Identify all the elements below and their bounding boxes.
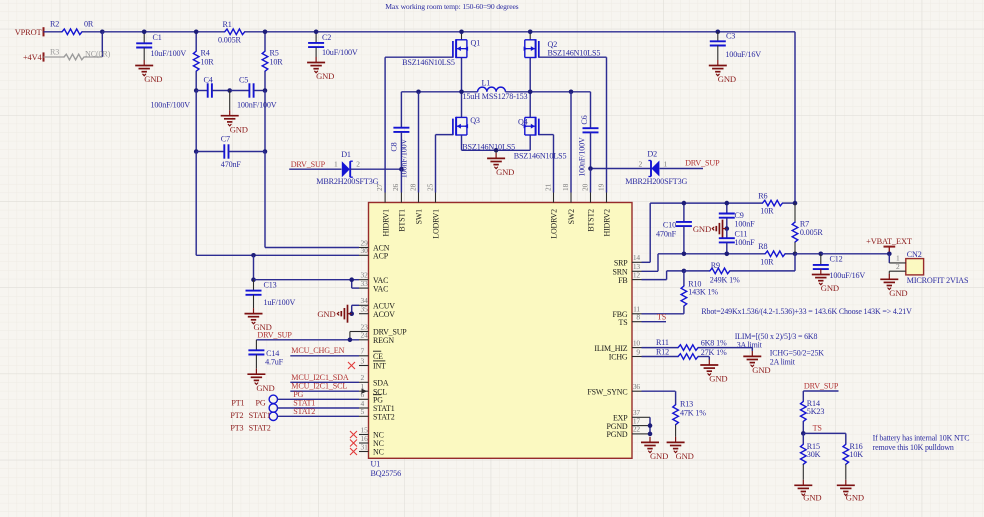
ground C14: [255, 369, 257, 375]
ground C13: [253, 308, 255, 314]
wire BTST2 to D2: [591, 168, 651, 170]
svg-text:GND: GND: [144, 74, 162, 84]
svg-text:R2: R2: [50, 19, 59, 28]
svg-text:C3: C3: [726, 32, 735, 41]
svg-text:100nF/100V: 100nF/100V: [151, 101, 191, 110]
transistor Q2: [529, 32, 531, 40]
svg-text:10uF/100V: 10uF/100V: [151, 49, 187, 58]
port +4V4: [43, 52, 45, 61]
svg-text:18: 18: [561, 183, 570, 191]
svg-text:10R: 10R: [201, 58, 215, 67]
svg-text:STAT1: STAT1: [249, 411, 271, 420]
svg-text:SW2: SW2: [567, 209, 576, 225]
svg-text:L1: L1: [482, 79, 491, 88]
wire rail D: [530, 31, 718, 33]
pin 12 FB: [632, 279, 642, 281]
svg-text:10R: 10R: [760, 207, 774, 216]
junction R5 rail: [263, 30, 268, 35]
svg-text:GND: GND: [650, 451, 668, 461]
svg-text:R9: R9: [711, 261, 720, 270]
svg-text:8: 8: [636, 313, 640, 322]
junction VAC tie: [349, 277, 354, 282]
svg-text:R12: R12: [656, 347, 669, 356]
ground R16: [845, 480, 847, 486]
svg-text:GND: GND: [821, 283, 839, 293]
resistor R15: [802, 433, 804, 444]
ground C3: [717, 60, 719, 66]
ground CN2: [888, 271, 890, 274]
resistor R10: [683, 271, 685, 286]
resistor R4: [193, 51, 199, 71]
pin 9 ICHG: [632, 356, 642, 358]
svg-text:HIDRV1: HIDRV1: [381, 209, 390, 237]
svg-text:R5: R5: [270, 49, 279, 58]
svg-text:remove this 10K pulldown: remove this 10K pulldown: [873, 443, 954, 452]
no-connect pin 16: [350, 440, 357, 447]
svg-text:GND: GND: [889, 288, 907, 298]
junction VBAT port: [887, 252, 892, 257]
pin 3 INT: [359, 365, 369, 367]
ground R11: [751, 351, 753, 357]
resistor R14: [802, 391, 804, 401]
pin 29 ACN: [359, 247, 369, 249]
ground bridge: [495, 150, 497, 153]
svg-text:GND: GND: [709, 374, 727, 384]
pin 5 STAT2: [359, 415, 369, 417]
pin 32 VAC: [359, 279, 369, 281]
pin 27 HIDRV1: [384, 193, 386, 203]
ground C1: [143, 60, 145, 66]
svg-text:C1: C1: [153, 33, 162, 42]
wire SRN jog: [642, 270, 659, 272]
svg-text:Q1: Q1: [471, 39, 481, 48]
wire REGN row: [256, 339, 359, 341]
test point PT2: [269, 404, 277, 412]
svg-text:15uH MSS1278-153: 15uH MSS1278-153: [463, 92, 528, 101]
svg-text:21: 21: [543, 183, 552, 191]
pin 1 CN2: [889, 262, 906, 264]
wire R6 to node: [783, 202, 796, 204]
junction C5 right: [263, 88, 268, 93]
wire D1 to BTST1: [351, 168, 402, 170]
svg-text:PT2: PT2: [230, 411, 243, 420]
svg-text:100uF/16V: 100uF/16V: [725, 50, 761, 59]
wire EXP chain: [642, 416, 651, 418]
junction REGN tie: [348, 338, 353, 343]
svg-text:REGN: REGN: [373, 336, 394, 345]
svg-text:TS: TS: [657, 312, 666, 321]
wire rail E: [718, 31, 795, 33]
junction R8 node: [793, 252, 798, 257]
svg-text:+4V4: +4V4: [23, 53, 43, 62]
svg-text:PG: PG: [293, 390, 303, 399]
junction C2: [314, 30, 319, 35]
wire SRP jog: [642, 261, 651, 263]
junction ACUV tie: [349, 311, 354, 316]
junction D1 BTST1: [399, 167, 404, 172]
pin 35 ACOV: [359, 313, 369, 315]
svg-text:DRV_SUP: DRV_SUP: [291, 160, 326, 169]
svg-text:MICROFIT 2VIAS: MICROFIT 2VIAS: [907, 276, 969, 285]
junction VPROT node: [100, 30, 105, 35]
svg-text:20: 20: [580, 183, 589, 191]
capacitor C4: [196, 90, 208, 92]
svg-text:GND: GND: [803, 493, 821, 503]
junction Q2 drain: [528, 30, 533, 35]
svg-text:28: 28: [408, 183, 417, 191]
svg-text:47K 1%: 47K 1%: [680, 408, 706, 417]
resistor R5: [262, 51, 268, 71]
port VPROT: [43, 27, 45, 36]
svg-text:LODRV2: LODRV2: [550, 209, 559, 239]
junction Q1 drain: [459, 30, 464, 35]
junction C7 right: [263, 149, 268, 154]
pin 36 FSW_SYNC: [632, 390, 642, 392]
junction D2 BTST2: [588, 166, 593, 171]
wire rail C: [462, 31, 531, 33]
svg-text:C12: C12: [830, 254, 843, 263]
svg-text:10R: 10R: [760, 257, 774, 266]
svg-text:10R: 10R: [270, 58, 284, 67]
wire R4 top: [195, 32, 197, 51]
junction SW1 pin: [416, 90, 421, 95]
op-amp U1 body: [369, 203, 633, 459]
junction R6 node: [793, 201, 798, 206]
svg-text:Rbot=249Kx1.536/(4.2-1.536)+33: Rbot=249Kx1.536/(4.2-1.536)+33 = 143.6K …: [701, 307, 912, 316]
resistor R7 shunt: [794, 203, 796, 223]
svg-text:GND: GND: [752, 365, 770, 375]
pin 37 EXP: [632, 416, 642, 418]
wire rail B: [245, 31, 462, 33]
svg-text:PT1: PT1: [231, 398, 244, 407]
resistor R16: [843, 444, 849, 464]
ground C12: [820, 269, 822, 275]
svg-text:0R: 0R: [84, 19, 94, 28]
wire DRV_SUP R14: [803, 390, 838, 392]
svg-text:Q4: Q4: [518, 118, 528, 127]
diode D2: [650, 161, 652, 177]
transistor Q1: [461, 32, 463, 40]
wire VBAT to port: [821, 253, 890, 255]
svg-text:R4: R4: [201, 49, 210, 58]
svg-text:C10: C10: [663, 220, 676, 229]
junction PGND 22: [648, 432, 653, 437]
svg-text:GND: GND: [718, 74, 736, 84]
svg-text:5: 5: [361, 407, 365, 416]
wire SRP vertical: [649, 203, 651, 262]
junction TS node: [801, 431, 806, 436]
wire ILIM row: [642, 347, 679, 349]
junction C3: [716, 30, 721, 35]
svg-text:DRV_SUP: DRV_SUP: [685, 158, 720, 167]
capacitor C14: [255, 340, 257, 351]
pin 34 ACUV: [359, 304, 369, 306]
svg-text:26: 26: [391, 183, 400, 191]
resistor R3 not fitted: [44, 56, 65, 58]
svg-text:24: 24: [361, 331, 369, 340]
ground ACUV ACOV: [348, 313, 352, 315]
no-connect pin 31: [350, 448, 357, 455]
svg-text:35: 35: [361, 305, 369, 314]
svg-text:5K23: 5K23: [807, 407, 825, 416]
svg-text:GND: GND: [230, 124, 248, 134]
wire node down to R3: [101, 32, 103, 57]
svg-text:MCU_I2C1_SDA: MCU_I2C1_SDA: [291, 373, 349, 382]
ground C4 C5 mid: [229, 91, 231, 111]
inductor L1: [478, 87, 506, 92]
svg-text:2: 2: [356, 160, 360, 169]
capacitor C7: [196, 151, 224, 153]
svg-text:100nF/100V: 100nF/100V: [577, 137, 586, 177]
svg-text:BTST1: BTST1: [398, 209, 407, 232]
wire SRN vertical: [657, 254, 659, 271]
svg-text:9: 9: [636, 347, 640, 356]
svg-text:CE: CE: [373, 352, 383, 361]
resistor R2: [62, 29, 82, 35]
junction C13 VAC: [251, 277, 256, 282]
svg-text:C8: C8: [390, 142, 399, 151]
capacitor C3: [717, 32, 719, 42]
pin 8 TS: [632, 321, 642, 323]
svg-text:STAT2: STAT2: [373, 413, 395, 422]
wire R8 to node: [785, 253, 795, 255]
ground R13: [675, 437, 677, 443]
svg-text:BQ25756: BQ25756: [371, 469, 402, 478]
capacitor C12: [820, 254, 822, 265]
wire SCL row: [290, 390, 359, 392]
svg-text:GND: GND: [317, 309, 335, 319]
svg-text:100uF/16V: 100uF/16V: [830, 271, 866, 280]
svg-text:1uF/100V: 1uF/100V: [264, 298, 296, 307]
transistor Q3: [452, 119, 454, 136]
svg-text:C6: C6: [580, 115, 589, 124]
svg-text:6K8 1%: 6K8 1%: [701, 338, 727, 347]
wire PG row: [278, 398, 360, 400]
wire TS to R16: [803, 432, 846, 434]
pin 2 CN2: [889, 270, 906, 272]
svg-text:2A limit: 2A limit: [770, 357, 796, 366]
wire Q4 drain: [529, 92, 531, 118]
wire ACUV ACOV tie: [352, 304, 359, 306]
wire Q2 gate: [539, 56, 607, 58]
pin 6 PG: [359, 398, 369, 400]
capacitor C8: [400, 92, 402, 128]
wire FSW row: [642, 390, 676, 392]
wire FB jog: [642, 279, 667, 281]
wire R4 to C4 row: [195, 71, 197, 90]
svg-text:30K: 30K: [807, 450, 821, 459]
wire SRN row: [658, 253, 765, 255]
pin 31 NC: [359, 451, 369, 453]
junction Q2 source: [528, 90, 533, 95]
wire Q1 gate: [385, 56, 453, 58]
transistor Q4: [538, 119, 540, 136]
svg-text:ILIM_HIZ: ILIM_HIZ: [594, 344, 627, 353]
junction C13 tap ACP: [251, 253, 256, 258]
capacitor C6: [590, 92, 592, 128]
no-connect pin 3: [348, 362, 355, 369]
wire Q3 source: [461, 135, 463, 150]
test point PT3: [269, 412, 277, 420]
pin 26 BTST1: [400, 193, 402, 203]
pin 28 SW1: [418, 193, 420, 203]
pin 24 REGN: [359, 339, 369, 341]
svg-text:VAC: VAC: [373, 284, 388, 293]
junction bridge ground: [494, 148, 499, 153]
junction R4 rail: [194, 30, 199, 35]
svg-text:FSW_SYNC: FSW_SYNC: [587, 387, 627, 396]
svg-text:If battery has internal 10K NT: If battery has internal 10K NTC: [873, 434, 970, 443]
svg-text:VPROT: VPROT: [15, 28, 42, 37]
wire ACN vertical: [264, 152, 266, 248]
svg-text:4.7uF: 4.7uF: [265, 358, 284, 367]
wire ACP row: [196, 254, 359, 256]
svg-text:GND: GND: [256, 383, 274, 393]
resistor R9: [684, 270, 710, 272]
ground R12: [708, 360, 710, 366]
svg-text:NC: NC: [373, 448, 384, 457]
pin 23 DRV_SUP: [359, 331, 369, 333]
capacitor C2: [315, 32, 317, 43]
wire STAT1 row: [278, 407, 360, 409]
port +VBAT_EXT: [884, 246, 896, 248]
svg-text:NC(0R): NC(0R): [85, 50, 111, 59]
svg-text:100nF/100V: 100nF/100V: [237, 101, 277, 110]
wire ACN row: [265, 247, 359, 249]
svg-text:10: 10: [633, 338, 641, 347]
wire Q4 source: [529, 135, 531, 150]
svg-text:3: 3: [361, 356, 365, 365]
wire VBAT row: [795, 253, 821, 255]
wire R2 to node VPROT1: [82, 31, 102, 33]
wire R12 to gnd: [698, 356, 709, 358]
svg-text:SW1: SW1: [415, 209, 424, 225]
wire R11 to gnd: [698, 347, 752, 349]
svg-text:FB: FB: [618, 276, 627, 285]
wire FBG row: [642, 313, 684, 315]
junction SW2 pin: [569, 90, 574, 95]
wire STAT2 row: [278, 415, 360, 417]
wire Q1 source to SW1: [461, 58, 463, 92]
capacitor C1: [143, 32, 145, 43]
pin 16 NC: [359, 442, 369, 444]
junction C4 C5 mid: [227, 88, 232, 93]
resistor R12: [678, 354, 698, 360]
svg-text:7: 7: [361, 347, 365, 356]
svg-text:BTST2: BTST2: [587, 209, 596, 232]
svg-text:PT3: PT3: [230, 423, 243, 432]
pin 10 ILIM_HIZ: [632, 347, 642, 349]
svg-text:DRV_SUP: DRV_SUP: [804, 382, 839, 391]
no-connect pin 15: [350, 431, 357, 438]
svg-text:PG: PG: [256, 398, 266, 407]
svg-text:19: 19: [596, 183, 605, 191]
resistor R11: [678, 345, 698, 351]
wire SDA row: [290, 381, 359, 383]
svg-text:R8: R8: [758, 242, 767, 251]
svg-text:36: 36: [633, 382, 641, 391]
pin 13 SRN: [632, 270, 642, 272]
svg-text:470nF: 470nF: [656, 229, 677, 238]
svg-text:31: 31: [361, 442, 369, 451]
svg-text:D1: D1: [341, 150, 351, 159]
pin 22 PGND: [632, 433, 642, 435]
junction C11 bottom: [725, 252, 730, 257]
pin 4 STAT1: [359, 407, 369, 409]
svg-text:100nF: 100nF: [735, 238, 756, 247]
svg-text:2: 2: [896, 262, 900, 271]
svg-text:U1: U1: [371, 460, 381, 469]
svg-text:MCU_CHG_EN: MCU_CHG_EN: [291, 346, 344, 355]
resistor R1 shunt: [225, 29, 245, 35]
wire VAC pins tie: [352, 287, 359, 289]
junction Q1 source: [459, 90, 464, 95]
wire C13 vertical: [253, 255, 255, 279]
junction R9 R10: [682, 269, 687, 274]
wire CE row: [290, 355, 359, 357]
pin 21 LODRV2: [553, 193, 555, 203]
svg-text:R3: R3: [50, 47, 59, 56]
svg-text:C2: C2: [322, 33, 331, 42]
diode D1: [349, 161, 351, 177]
junction C7 left: [194, 149, 199, 154]
pin 17 PGND: [632, 425, 642, 427]
wire SW2 rail: [505, 91, 590, 93]
svg-text:ACP: ACP: [373, 252, 389, 261]
svg-text:DRV_SUP: DRV_SUP: [257, 330, 292, 339]
svg-text:C5: C5: [239, 76, 248, 85]
svg-text:33: 33: [361, 279, 369, 288]
svg-text:GND: GND: [846, 493, 864, 503]
wire VPROT to R2: [44, 31, 63, 33]
svg-text:30: 30: [361, 246, 369, 255]
wire Q3 gate: [436, 134, 453, 136]
svg-text:249K 1%: 249K 1%: [710, 275, 740, 284]
svg-text:INT: INT: [373, 362, 386, 371]
wire SW2 pin down: [570, 92, 572, 193]
svg-text:R1: R1: [223, 20, 232, 29]
wire R9 to node: [730, 270, 795, 272]
svg-text:ICHG: ICHG: [609, 353, 628, 362]
svg-text:GND: GND: [316, 71, 334, 81]
wire TS stub: [642, 321, 667, 323]
pin 1 SCL: [359, 390, 369, 392]
wire sense rail: [650, 202, 762, 204]
svg-text:BSZ146N10LS5: BSZ146N10LS5: [548, 49, 601, 58]
svg-text:3A limit: 3A limit: [737, 341, 763, 350]
wire rail A: [102, 31, 224, 33]
wire VAC row: [254, 279, 360, 281]
pin 7 CE: [359, 355, 369, 357]
svg-text:LODRV1: LODRV1: [432, 209, 441, 239]
wire DRV_SUP to D1: [289, 168, 341, 170]
pin 1 input arrow: [362, 389, 368, 394]
svg-text:0.005R: 0.005R: [218, 36, 241, 45]
pin 15 NC: [359, 434, 369, 436]
capacitor C9: [726, 203, 728, 213]
wire to CN2 pin1: [888, 254, 890, 263]
svg-text:STAT2: STAT2: [293, 407, 315, 416]
svg-text:1: 1: [334, 160, 338, 169]
svg-text:BSZ146N10LS5: BSZ146N10LS5: [514, 152, 567, 161]
svg-text:TS: TS: [813, 424, 822, 433]
connector CN2: [906, 259, 924, 275]
wire D2 to DRV_SUP: [660, 168, 703, 170]
wire Q2 source to SW2: [529, 58, 531, 92]
wire ACP vertical: [195, 152, 197, 256]
svg-text:TS: TS: [619, 318, 628, 327]
pin 14 SRP: [632, 261, 642, 263]
